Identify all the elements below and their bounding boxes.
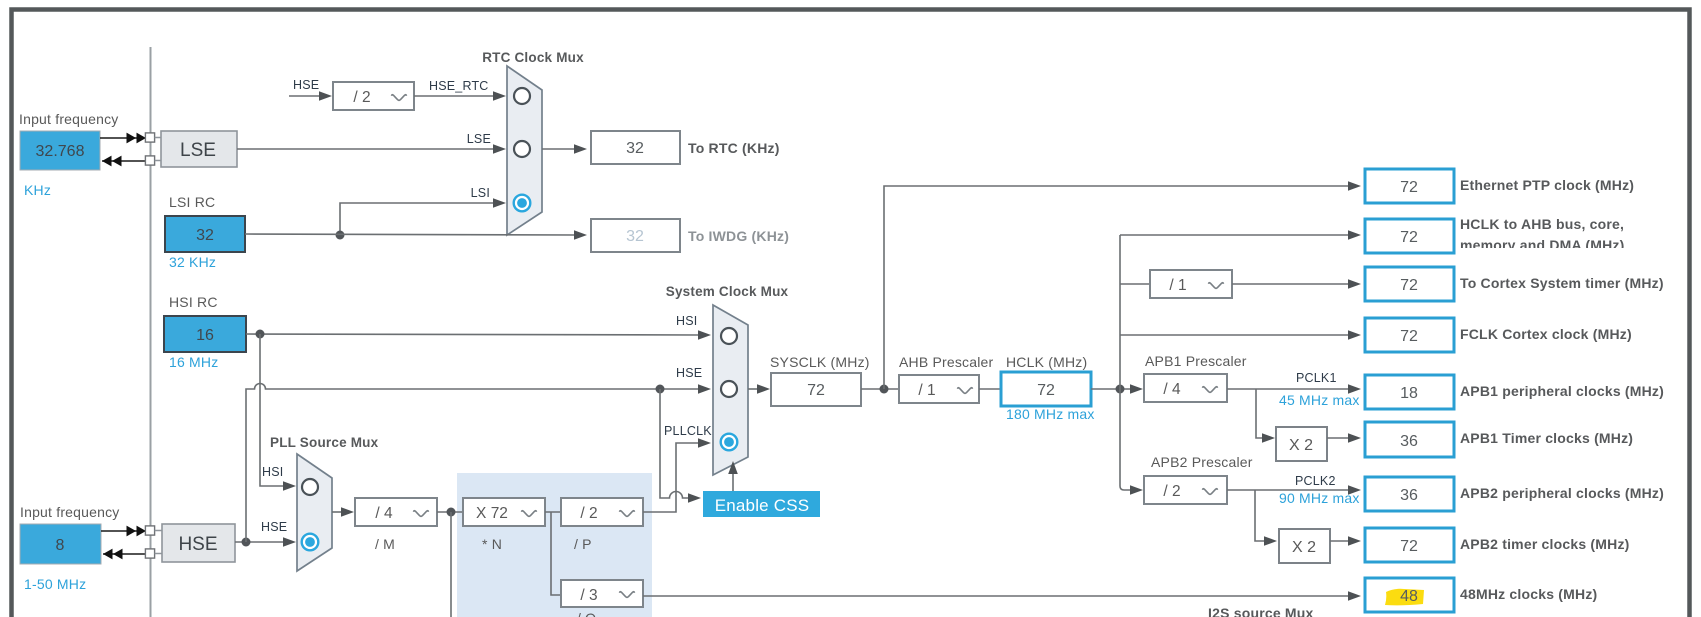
junction HSE-CSS: [656, 385, 665, 394]
svg-text:Input frequency: Input frequency: [19, 111, 119, 127]
PLL Source Mux title: [270, 435, 379, 450]
svg-text:/ 1: / 1: [918, 382, 935, 399]
junction HSE: [242, 538, 251, 547]
pin square HSE out: [145, 549, 162, 558]
svg-text:48MHz clocks (MHz): 48MHz clocks (MHz): [1460, 586, 1597, 602]
svg-text:To RTC (KHz): To RTC (KHz): [688, 140, 780, 156]
divider Cortex /1: [1150, 270, 1232, 298]
wire RTC mux to RTC box: [542, 144, 587, 154]
net label HSI (PLL input): [262, 465, 283, 479]
divider APB2 /2: [1144, 476, 1227, 504]
pin square LSE out: [145, 156, 161, 165]
label 45 MHz max: [1279, 392, 1360, 408]
wire SYSCLK to AHB prescaler: [861, 388, 899, 390]
label APB1 Prescaler: [1145, 353, 1247, 369]
svg-text:32 KHz: 32 KHz: [169, 254, 216, 270]
wire HSE stub to divider: [289, 91, 332, 101]
svg-text:X 2: X 2: [1289, 437, 1313, 454]
APB1 Timer clocks box: [1365, 422, 1454, 457]
svg-text:/ 1: / 1: [1169, 277, 1186, 294]
Enable CSS button: [703, 491, 820, 517]
svg-text:16 MHz: 16 MHz: [169, 354, 218, 370]
APB1 peripheral clocks box: [1365, 375, 1454, 409]
wire PCLK2: [1227, 485, 1361, 495]
label / P: [574, 536, 592, 552]
wire HCLK to cortex prescaler: [1120, 283, 1150, 285]
label HCLK to AHB (2 lines, clipped): [1460, 216, 1625, 253]
PLL highlight region: [457, 473, 652, 617]
divider APB1 /4: [1144, 374, 1227, 402]
label / M: [375, 536, 395, 552]
svg-text:memory and DMA (MHz): memory and DMA (MHz): [1460, 237, 1625, 253]
wire LSE input to pin: [100, 133, 146, 144]
svg-text:PLL Source Mux: PLL Source Mux: [270, 435, 379, 450]
wire branch to APB1 timer multiplier: [1256, 389, 1275, 443]
svg-text:RTC Clock Mux: RTC Clock Mux: [482, 50, 584, 65]
svg-text:32: 32: [196, 227, 214, 244]
net label LSE: [467, 132, 491, 146]
svg-text:System Clock Mux: System Clock Mux: [666, 284, 789, 299]
svg-text:APB1 Timer clocks (MHz): APB1 Timer clocks (MHz): [1460, 430, 1633, 446]
wire SYSCLK to Ethernet PTP: [884, 181, 1361, 389]
svg-text:18: 18: [1400, 385, 1418, 402]
net label LSI: [471, 186, 490, 200]
radio PLL HSE (selected): [302, 534, 319, 551]
wire down to I2S mux: [450, 512, 452, 617]
HCLK to AHB box: [1365, 219, 1454, 253]
svg-text:APB1 Prescaler: APB1 Prescaler: [1145, 353, 1247, 369]
svg-text:PCLK2: PCLK2: [1295, 474, 1336, 488]
net label HSE (sys input): [676, 366, 702, 380]
wire HSE to PLL mux: [235, 537, 296, 547]
net label HSE (top stub): [293, 78, 319, 92]
HSE oscillator box: [162, 524, 235, 562]
LSE input frequency box 32.768: [20, 131, 100, 170]
wire PLLCLK to system mux: [643, 438, 711, 512]
HSE input frequency box 8: [20, 524, 101, 564]
svg-text:/ 4: / 4: [375, 505, 393, 522]
svg-text:72: 72: [1037, 382, 1055, 399]
pin square HSE in: [145, 526, 162, 535]
label / Q (clipped): [577, 610, 596, 617]
junction HCLK: [1116, 385, 1125, 394]
label APB2 peripheral clocks: [1460, 485, 1664, 501]
multiplier APB1 X2: [1276, 427, 1327, 461]
wire HCLK to APB1 prescaler: [1091, 384, 1143, 394]
svg-text:48: 48: [1400, 588, 1418, 605]
To RTC value box: [591, 131, 680, 164]
wire PLL mux to /M: [332, 507, 354, 517]
svg-text:LSE: LSE: [180, 140, 216, 161]
wire X2 to APB2 timer box: [1330, 536, 1361, 546]
junction after /M: [437, 508, 463, 517]
wire HCLK vertical bus: [1120, 235, 1132, 490]
label KHz: [24, 182, 51, 198]
svg-text:16: 16: [196, 327, 214, 344]
svg-text:* N: * N: [482, 536, 502, 552]
divider /2 (HSE_RTC): [333, 82, 414, 110]
LSE oscillator box: [161, 131, 237, 167]
label Input frequency (HSE): [20, 504, 120, 520]
svg-text:HSE: HSE: [261, 520, 287, 534]
divider /Q (48MHz): [561, 580, 643, 607]
wire LSE to RTC mux: [237, 144, 506, 154]
svg-text:36: 36: [1400, 487, 1418, 504]
multiplier *N: [463, 498, 545, 526]
wire PCLK1: [1227, 384, 1361, 394]
wire LSE pin to input (return): [102, 156, 146, 167]
FCLK Cortex clock box: [1365, 318, 1454, 352]
label LSI RC: [169, 194, 215, 210]
label SYSCLK (MHz): [770, 354, 870, 370]
svg-text:HSE: HSE: [293, 78, 319, 92]
svg-text:32: 32: [626, 140, 644, 157]
svg-text:72: 72: [1400, 277, 1418, 294]
svg-text:APB2 timer clocks (MHz): APB2 timer clocks (MHz): [1460, 536, 1630, 552]
svg-text:HSE_RTC: HSE_RTC: [429, 79, 489, 93]
svg-text:HSE: HSE: [178, 534, 217, 555]
label * N: [482, 536, 502, 552]
svg-text:/ M: / M: [375, 536, 395, 552]
wire X2 to APB1 timer box: [1327, 433, 1361, 443]
wire CSS from HSE (hop over PLLCLK): [660, 389, 701, 503]
label APB2 timer clocks: [1460, 536, 1630, 552]
divider AHB /1: [899, 375, 979, 403]
svg-text:32.768: 32.768: [36, 143, 85, 160]
label AHB Prescaler: [899, 354, 994, 370]
LSI RC box 32: [165, 216, 245, 252]
svg-text:Input frequency: Input frequency: [20, 504, 120, 520]
svg-text:To Cortex System timer (MHz): To Cortex System timer (MHz): [1460, 275, 1664, 291]
PLL Source Mux body: [297, 454, 332, 571]
svg-text:1-50 MHz: 1-50 MHz: [24, 576, 86, 592]
wire HSE pin return: [103, 549, 146, 560]
net label HSE_RTC: [429, 79, 489, 93]
svg-text:LSI: LSI: [471, 186, 490, 200]
wire HCLK to FCLK: [1120, 330, 1361, 340]
svg-text:KHz: KHz: [24, 182, 51, 198]
wire N to P and Q: [545, 512, 561, 595]
APB2 peripheral clocks box: [1365, 477, 1454, 511]
wire LSI to IWDG: [245, 230, 587, 240]
label Ethernet PTP clock: [1460, 177, 1634, 193]
svg-text:LSI RC: LSI RC: [169, 194, 215, 210]
HSI RC box 16: [164, 316, 246, 352]
svg-text:PCLK1: PCLK1: [1296, 371, 1337, 385]
divider /M: [355, 498, 437, 526]
svg-text:HCLK to AHB bus, core,: HCLK to AHB bus, core,: [1460, 216, 1624, 232]
wire HSE up to system mux (hop over HSI line): [246, 384, 711, 543]
junction LSI: [336, 231, 345, 240]
svg-text:90 MHz max: 90 MHz max: [1279, 490, 1360, 506]
svg-text:X 72: X 72: [476, 505, 508, 522]
svg-text:PLLCLK: PLLCLK: [664, 424, 712, 438]
svg-text:/ 2: / 2: [580, 505, 597, 522]
svg-text:32: 32: [626, 228, 644, 245]
svg-text:To IWDG (KHz): To IWDG (KHz): [688, 228, 789, 244]
junction SYSCLK: [880, 385, 889, 394]
svg-text:/ 4: / 4: [1163, 381, 1181, 398]
label To Cortex System timer: [1460, 275, 1664, 291]
label To IWDG (KHz): [688, 228, 789, 244]
label HCLK (MHz): [1006, 354, 1087, 370]
svg-text:FCLK Cortex clock (MHz): FCLK Cortex clock (MHz): [1460, 326, 1632, 342]
wire divider to RTC mux: [414, 91, 506, 101]
net label PCLK1: [1296, 371, 1337, 385]
radio SYS PLLCLK (selected): [721, 434, 738, 451]
svg-text:HCLK (MHz): HCLK (MHz): [1006, 354, 1087, 370]
HCLK value box: [1001, 372, 1091, 406]
svg-text:LSE: LSE: [467, 132, 491, 146]
svg-text:SYSCLK (MHz): SYSCLK (MHz): [770, 354, 870, 370]
left bus line: [150, 47, 152, 617]
wire CSS to mux: [728, 461, 738, 491]
svg-text:HSI: HSI: [676, 314, 697, 328]
svg-text:72: 72: [1400, 328, 1418, 345]
svg-text:Enable CSS: Enable CSS: [715, 496, 810, 515]
svg-text:APB1 peripheral clocks (MHz): APB1 peripheral clocks (MHz): [1460, 383, 1664, 399]
label 90 MHz max: [1279, 490, 1360, 506]
svg-text:HSI: HSI: [262, 465, 283, 479]
svg-text:/ 3: / 3: [580, 587, 597, 604]
label APB1 peripheral clocks: [1460, 383, 1664, 399]
APB2 timer clocks box: [1365, 528, 1454, 562]
label APB2 Prescaler: [1151, 454, 1253, 470]
label FCLK Cortex clock: [1460, 326, 1632, 342]
svg-text:Ethernet PTP clock (MHz): Ethernet PTP clock (MHz): [1460, 177, 1634, 193]
Ethernet PTP clock box: [1365, 169, 1454, 203]
radio HSE_RTC (off): [514, 88, 530, 104]
svg-text:/ 2: / 2: [1163, 483, 1180, 500]
wire LSI branch to RTC mux: [340, 198, 506, 235]
label 1-50 MHz: [24, 576, 86, 592]
wire APB2 in arrow: [1130, 485, 1143, 495]
I2S source Mux title (clipped): [1208, 605, 1314, 617]
To Cortex System timer box: [1365, 267, 1454, 301]
svg-text:AHB Prescaler: AHB Prescaler: [899, 354, 994, 370]
svg-text:45 MHz max: 45 MHz max: [1279, 392, 1360, 408]
label 180 MHz max: [1006, 406, 1095, 422]
svg-text:36: 36: [1400, 433, 1418, 450]
wire cortex prescaler to box: [1232, 279, 1361, 289]
label Input frequency (LSE): [19, 111, 119, 127]
svg-text:8: 8: [56, 537, 65, 554]
net label HSE (PLL input): [261, 520, 287, 534]
multiplier APB2 X2: [1279, 529, 1330, 563]
label HSI RC: [169, 294, 218, 310]
wire HCLK to AHB bus box: [1120, 230, 1361, 240]
RTC Clock Mux body: [507, 66, 542, 235]
svg-text:HSI RC: HSI RC: [169, 294, 218, 310]
net label PLLCLK: [664, 424, 712, 438]
net label PCLK2: [1295, 474, 1336, 488]
label To RTC (KHz): [688, 140, 780, 156]
svg-text:72: 72: [1400, 538, 1418, 555]
svg-text:HSE: HSE: [676, 366, 702, 380]
wire AHB to HCLK: [979, 388, 1001, 390]
svg-text:72: 72: [1400, 229, 1418, 246]
label 32 KHz: [169, 254, 216, 270]
radio SYS HSI (off): [721, 328, 737, 344]
svg-text:X 2: X 2: [1292, 539, 1316, 556]
System Clock Mux body: [713, 305, 748, 475]
svg-text:/ Q: / Q: [577, 610, 596, 617]
svg-text:APB2 Prescaler: APB2 Prescaler: [1151, 454, 1253, 470]
radio LSE (off): [514, 141, 530, 157]
svg-text:180 MHz max: 180 MHz max: [1006, 406, 1095, 422]
pin square LSE in: [145, 133, 161, 142]
wire branch to APB2 timer multiplier: [1255, 490, 1277, 546]
label 48MHz clocks: [1460, 586, 1597, 602]
wire HSI to system mux: [246, 330, 711, 340]
System Clock Mux title: [666, 284, 789, 299]
svg-text:72: 72: [1400, 179, 1418, 196]
radio LSI (selected): [514, 195, 531, 212]
wire mux to SYSCLK: [748, 384, 770, 394]
svg-text:72: 72: [807, 382, 825, 399]
radio SYS HSE (off): [721, 381, 737, 397]
wire /Q to 48MHz clocks: [643, 591, 1361, 601]
label APB1 Timer clocks: [1460, 430, 1633, 446]
net label HSI (sys input): [676, 314, 697, 328]
wire HSI down to PLL mux: [260, 334, 296, 491]
RTC Clock Mux title: [482, 50, 584, 65]
radio PLL HSI (off): [302, 479, 318, 495]
svg-text:I2S source Mux: I2S source Mux: [1208, 605, 1314, 617]
svg-text:/ P: / P: [574, 536, 592, 552]
label 16 MHz: [169, 354, 218, 370]
To IWDG value box: [591, 219, 680, 252]
48MHz clocks box: [1365, 578, 1454, 612]
junction HSI: [256, 330, 265, 339]
SYSCLK value box: [771, 373, 861, 406]
svg-text:/ 2: / 2: [353, 89, 370, 106]
svg-text:APB2 peripheral clocks (MHz): APB2 peripheral clocks (MHz): [1460, 485, 1664, 501]
divider /P: [561, 498, 643, 526]
wire HSE input to pin: [101, 526, 146, 537]
